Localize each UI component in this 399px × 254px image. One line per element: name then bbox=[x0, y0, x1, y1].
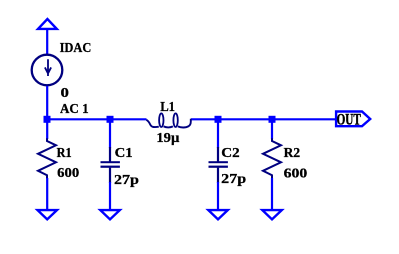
svg-text:27p: 27p bbox=[114, 173, 139, 188]
node OUT port flag bbox=[336, 112, 370, 127]
wire (R2 to ground) bbox=[271, 178, 273, 210]
current source IDAC (circle) bbox=[32, 55, 63, 86]
wire (R1 to ground) bbox=[46, 178, 48, 210]
svg-text:R1: R1 bbox=[57, 146, 72, 161]
ground (under C1) bbox=[100, 210, 120, 219]
wire (current source to node A) bbox=[46, 86, 48, 123]
node C junction square (C2 top) bbox=[215, 116, 222, 123]
node A junction square bbox=[44, 116, 51, 123]
svg-text:19µ: 19µ bbox=[156, 131, 179, 146]
svg-text:27p: 27p bbox=[221, 172, 246, 187]
node D junction square (R2 top) bbox=[269, 116, 276, 123]
wire (C2 to ground) bbox=[217, 182, 219, 210]
wire (node A to R1) bbox=[46, 122, 48, 139]
svg-text:600: 600 bbox=[57, 166, 79, 181]
wire (node D to R2) bbox=[271, 122, 273, 139]
svg-text:600: 600 bbox=[284, 167, 308, 182]
ground (under R1) bbox=[38, 210, 58, 219]
wire (node B to C1) bbox=[109, 122, 111, 148]
svg-text:0: 0 bbox=[61, 86, 69, 101]
svg-text:OUT: OUT bbox=[337, 112, 361, 129]
svg-text:C2: C2 bbox=[221, 146, 239, 161]
svg-text:L1: L1 bbox=[160, 100, 175, 115]
ground (under R2) bbox=[262, 210, 282, 219]
ground flag (top, rotated 180) bbox=[38, 19, 57, 29]
wire main horizontal left (node to inductor) bbox=[47, 118, 147, 120]
capacitor C1 bbox=[101, 147, 120, 183]
capacitor C2 bbox=[209, 147, 228, 183]
wire (node C to C2) bbox=[217, 122, 219, 148]
wire (C1 to ground) bbox=[109, 182, 111, 210]
svg-text:AC 1: AC 1 bbox=[60, 102, 89, 117]
wire main horizontal right (inductor to OUT flag) bbox=[191, 118, 336, 120]
wire (flag to current source) bbox=[46, 30, 48, 55]
ground (under C2) bbox=[208, 210, 228, 219]
svg-text:C1: C1 bbox=[115, 146, 133, 161]
resistor R2 bbox=[263, 138, 281, 178]
resistor R1 bbox=[38, 138, 56, 178]
current source IDAC (arrow) bbox=[45, 59, 51, 76]
svg-text:IDAC: IDAC bbox=[60, 41, 92, 56]
inductor L1 bbox=[146, 113, 190, 127]
svg-text:R2: R2 bbox=[284, 146, 301, 161]
node B junction square (C1 top) bbox=[107, 116, 114, 123]
